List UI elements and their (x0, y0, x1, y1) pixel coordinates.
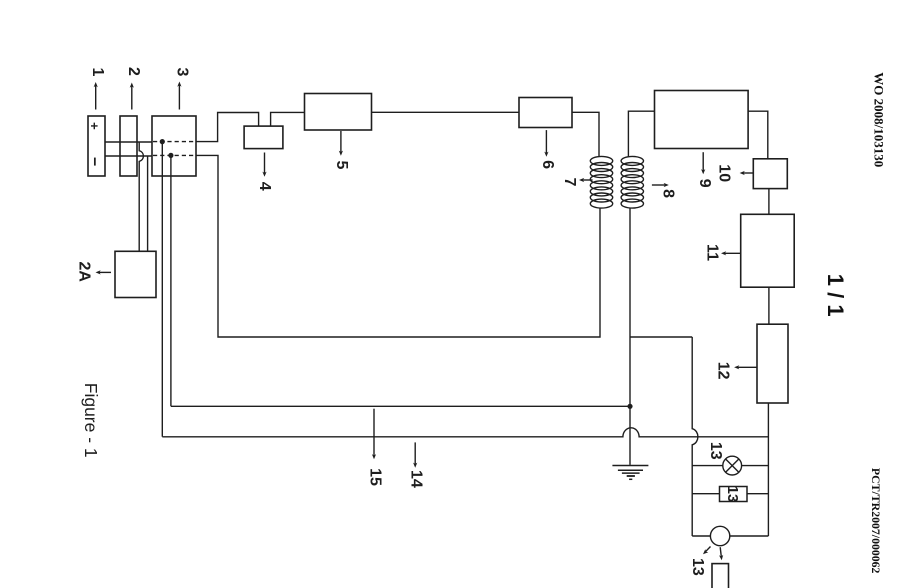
dashed contact line upper inside box3 (153, 141, 196, 143)
lead line for label 6 (545, 130, 547, 154)
label 4 (256, 182, 273, 191)
fuse branch left wire (692, 493, 719, 495)
lead line for label 15 (373, 409, 375, 457)
label 3 (173, 68, 190, 77)
label 13 (in box) (724, 486, 741, 503)
long wire 14 to right rail with hop over ground wire (162, 428, 768, 437)
box 6 (519, 98, 572, 128)
lead line circle to label 13 (705, 547, 711, 553)
wire battery to box3 upper (105, 141, 152, 143)
svg-text:PCT/TR2007/000062: PCT/TR2007/000062 (869, 468, 883, 574)
label 2 (125, 67, 142, 76)
meter 13 (circle) (710, 526, 729, 545)
junction dot on ground wire (627, 404, 632, 409)
lead line for label 14 (414, 442, 416, 465)
label 5 (333, 161, 350, 170)
lead line for label 1 (95, 85, 97, 110)
battery 1 (88, 116, 105, 176)
svg-text:Figure - 1: Figure - 1 (81, 383, 101, 458)
box 4 (244, 126, 283, 149)
wire box3 to box4 (196, 113, 259, 142)
svg-text:14: 14 (408, 470, 425, 488)
svg-text:6: 6 (539, 160, 556, 169)
label 13 (lamp) (707, 442, 724, 460)
header text WO 2008/103130 (871, 72, 886, 167)
lead line circle to bottom rect (720, 547, 721, 557)
label 12 (715, 362, 732, 380)
svg-text:4: 4 (256, 182, 273, 191)
svg-text:15: 15 (366, 468, 383, 486)
bottom wire right (730, 535, 769, 537)
lamp 13 (circle with X) (723, 456, 742, 475)
box 3 (152, 116, 196, 176)
box 2 (120, 116, 137, 176)
left rail with hop over long wire (692, 337, 698, 536)
caption Figure - 1 (81, 383, 101, 458)
branch from ground wire to left rail (630, 336, 692, 338)
lead line for label 5 (340, 131, 342, 153)
battery minus sign (86, 157, 103, 166)
label 1 (89, 68, 106, 77)
svg-text:13: 13 (707, 442, 724, 460)
wire from node dot1 down (161, 142, 163, 437)
wire coil8 top to box9 (628, 111, 654, 156)
right rail: box12 bottom to bottom corner (767, 403, 769, 536)
svg-text:1 / 1: 1 / 1 (823, 274, 848, 317)
coil 8 (transformer secondary) (621, 156, 643, 208)
box 5 (305, 94, 372, 131)
lead line for label 10 (742, 172, 753, 174)
svg-text:10: 10 (716, 164, 733, 182)
box 9 (655, 91, 749, 149)
label 10 (716, 164, 733, 182)
coil 7 (transformer primary) (590, 156, 612, 208)
wire box6 to coil7 (572, 112, 599, 156)
bottom wire left (692, 535, 710, 537)
bottom rect (cut off at page edge) (712, 564, 729, 588)
svg-text:1: 1 (89, 68, 106, 77)
lead line for label 7 (582, 179, 593, 181)
box 11 (741, 214, 795, 287)
wire lower to 2A (147, 156, 149, 251)
fuse branch right wire (747, 493, 768, 495)
box 10 (753, 159, 787, 189)
wire coil7 bottom loop back to box3 (196, 155, 600, 337)
battery plus sign (87, 122, 102, 130)
ground wire: coil8 bottom down to ground (629, 208, 631, 465)
wire to 2A with hop over lower wire (139, 142, 143, 251)
wire box11 to box12 (768, 287, 770, 324)
svg-text:9: 9 (696, 179, 713, 188)
box 2A (115, 251, 156, 297)
svg-text:13: 13 (724, 486, 741, 503)
lamp branch right wire (742, 465, 769, 467)
lead line for label 8 (652, 184, 666, 186)
wire box4 to box5 (271, 112, 305, 126)
svg-text:+: + (87, 122, 102, 130)
lead line for label 9 (702, 152, 704, 171)
svg-text:2A: 2A (75, 261, 92, 282)
svg-text:WO 2008/103130: WO 2008/103130 (871, 72, 886, 167)
wire box5 to box6 (372, 111, 520, 113)
svg-text:2: 2 (125, 67, 142, 76)
box 13 (small) (720, 487, 748, 502)
label 9 (696, 179, 713, 188)
wire 15 to ground junction (171, 405, 630, 407)
svg-text:12: 12 (715, 362, 732, 380)
svg-text:5: 5 (333, 161, 350, 170)
wire box10 to box11 (768, 189, 770, 215)
label 6 (539, 160, 556, 169)
svg-text:11: 11 (703, 244, 720, 261)
lead line for label 2 (131, 85, 133, 110)
lead line for label 2A (98, 271, 111, 273)
lead line for label 12 (737, 366, 757, 368)
label 15 (366, 468, 383, 486)
label 11 (703, 244, 720, 261)
node dot upper (160, 139, 165, 144)
label 13 (bottom) (689, 558, 706, 576)
lead line for label 3 (178, 84, 180, 110)
svg-text:13: 13 (689, 558, 706, 576)
label 14 (408, 470, 425, 488)
lamp branch left wire (692, 465, 723, 467)
wire box9 to box10 (748, 111, 768, 159)
footer text PCT/TR2007/000062 (869, 468, 883, 574)
label 2A (75, 261, 92, 282)
svg-text:8: 8 (660, 189, 677, 198)
sheet number 1/1 (823, 274, 848, 317)
wire battery to box3 lower (105, 155, 152, 157)
svg-text:3: 3 (173, 68, 190, 77)
svg-text:−: − (86, 157, 103, 166)
svg-text:7: 7 (561, 177, 578, 186)
label 8 (660, 189, 677, 198)
node dot lower (168, 153, 173, 158)
lead line for label 4 (264, 153, 266, 175)
wire from node dot2 down (170, 155, 172, 406)
box 12 (757, 324, 788, 403)
label 7 (561, 177, 578, 186)
ground symbol (612, 466, 648, 480)
lead line for label 11 (724, 252, 741, 254)
dashed contact line lower inside box3 (153, 154, 196, 156)
